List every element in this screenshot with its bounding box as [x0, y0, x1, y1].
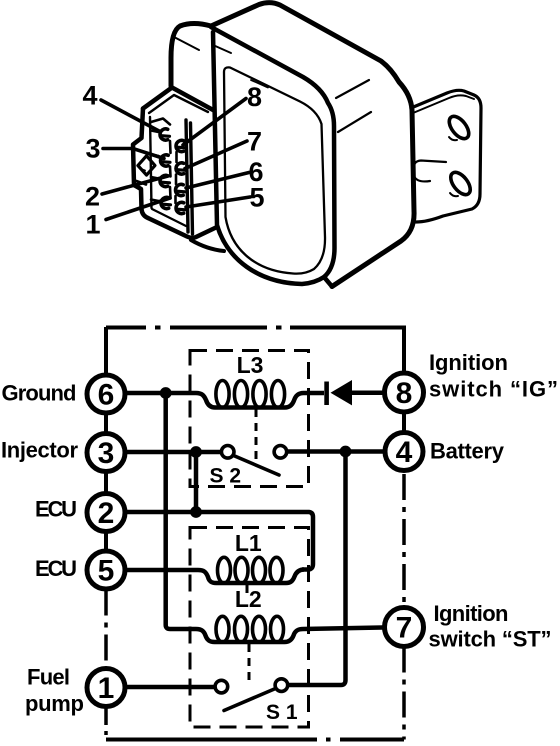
svg-text:4: 4	[82, 81, 97, 111]
svg-text:L1: L1	[235, 530, 262, 556]
svg-text:7: 7	[396, 612, 413, 645]
svg-text:ECU: ECU	[35, 556, 77, 581]
svg-text:Ignition: Ignition	[429, 350, 508, 375]
svg-text:Ground: Ground	[2, 381, 77, 406]
svg-text:L3: L3	[237, 352, 264, 378]
svg-text:2: 2	[98, 497, 115, 530]
svg-text:Fuel: Fuel	[27, 665, 70, 690]
svg-text:6: 6	[98, 379, 115, 412]
svg-text:8: 8	[396, 377, 413, 410]
svg-text:2: 2	[85, 182, 100, 212]
svg-text:pump: pump	[25, 691, 84, 716]
svg-text:Ignition: Ignition	[434, 601, 509, 626]
svg-text:switch “IG”: switch “IG”	[429, 377, 558, 402]
svg-text:L2: L2	[235, 586, 262, 612]
svg-text:Injector: Injector	[1, 438, 78, 463]
svg-text:4: 4	[396, 436, 413, 469]
svg-text:1: 1	[85, 210, 100, 240]
svg-text:8: 8	[247, 82, 262, 112]
svg-text:Battery: Battery	[430, 439, 505, 464]
svg-text:ECU: ECU	[35, 497, 77, 522]
svg-text:3: 3	[85, 134, 100, 164]
svg-text:S 2: S 2	[210, 465, 242, 488]
svg-text:5: 5	[249, 183, 264, 213]
svg-text:5: 5	[98, 555, 115, 588]
svg-text:switch “ST”: switch “ST”	[429, 627, 552, 652]
svg-text:1: 1	[98, 672, 115, 705]
svg-text:S 1: S 1	[266, 701, 298, 724]
svg-text:7: 7	[247, 127, 262, 157]
svg-text:3: 3	[98, 437, 115, 470]
